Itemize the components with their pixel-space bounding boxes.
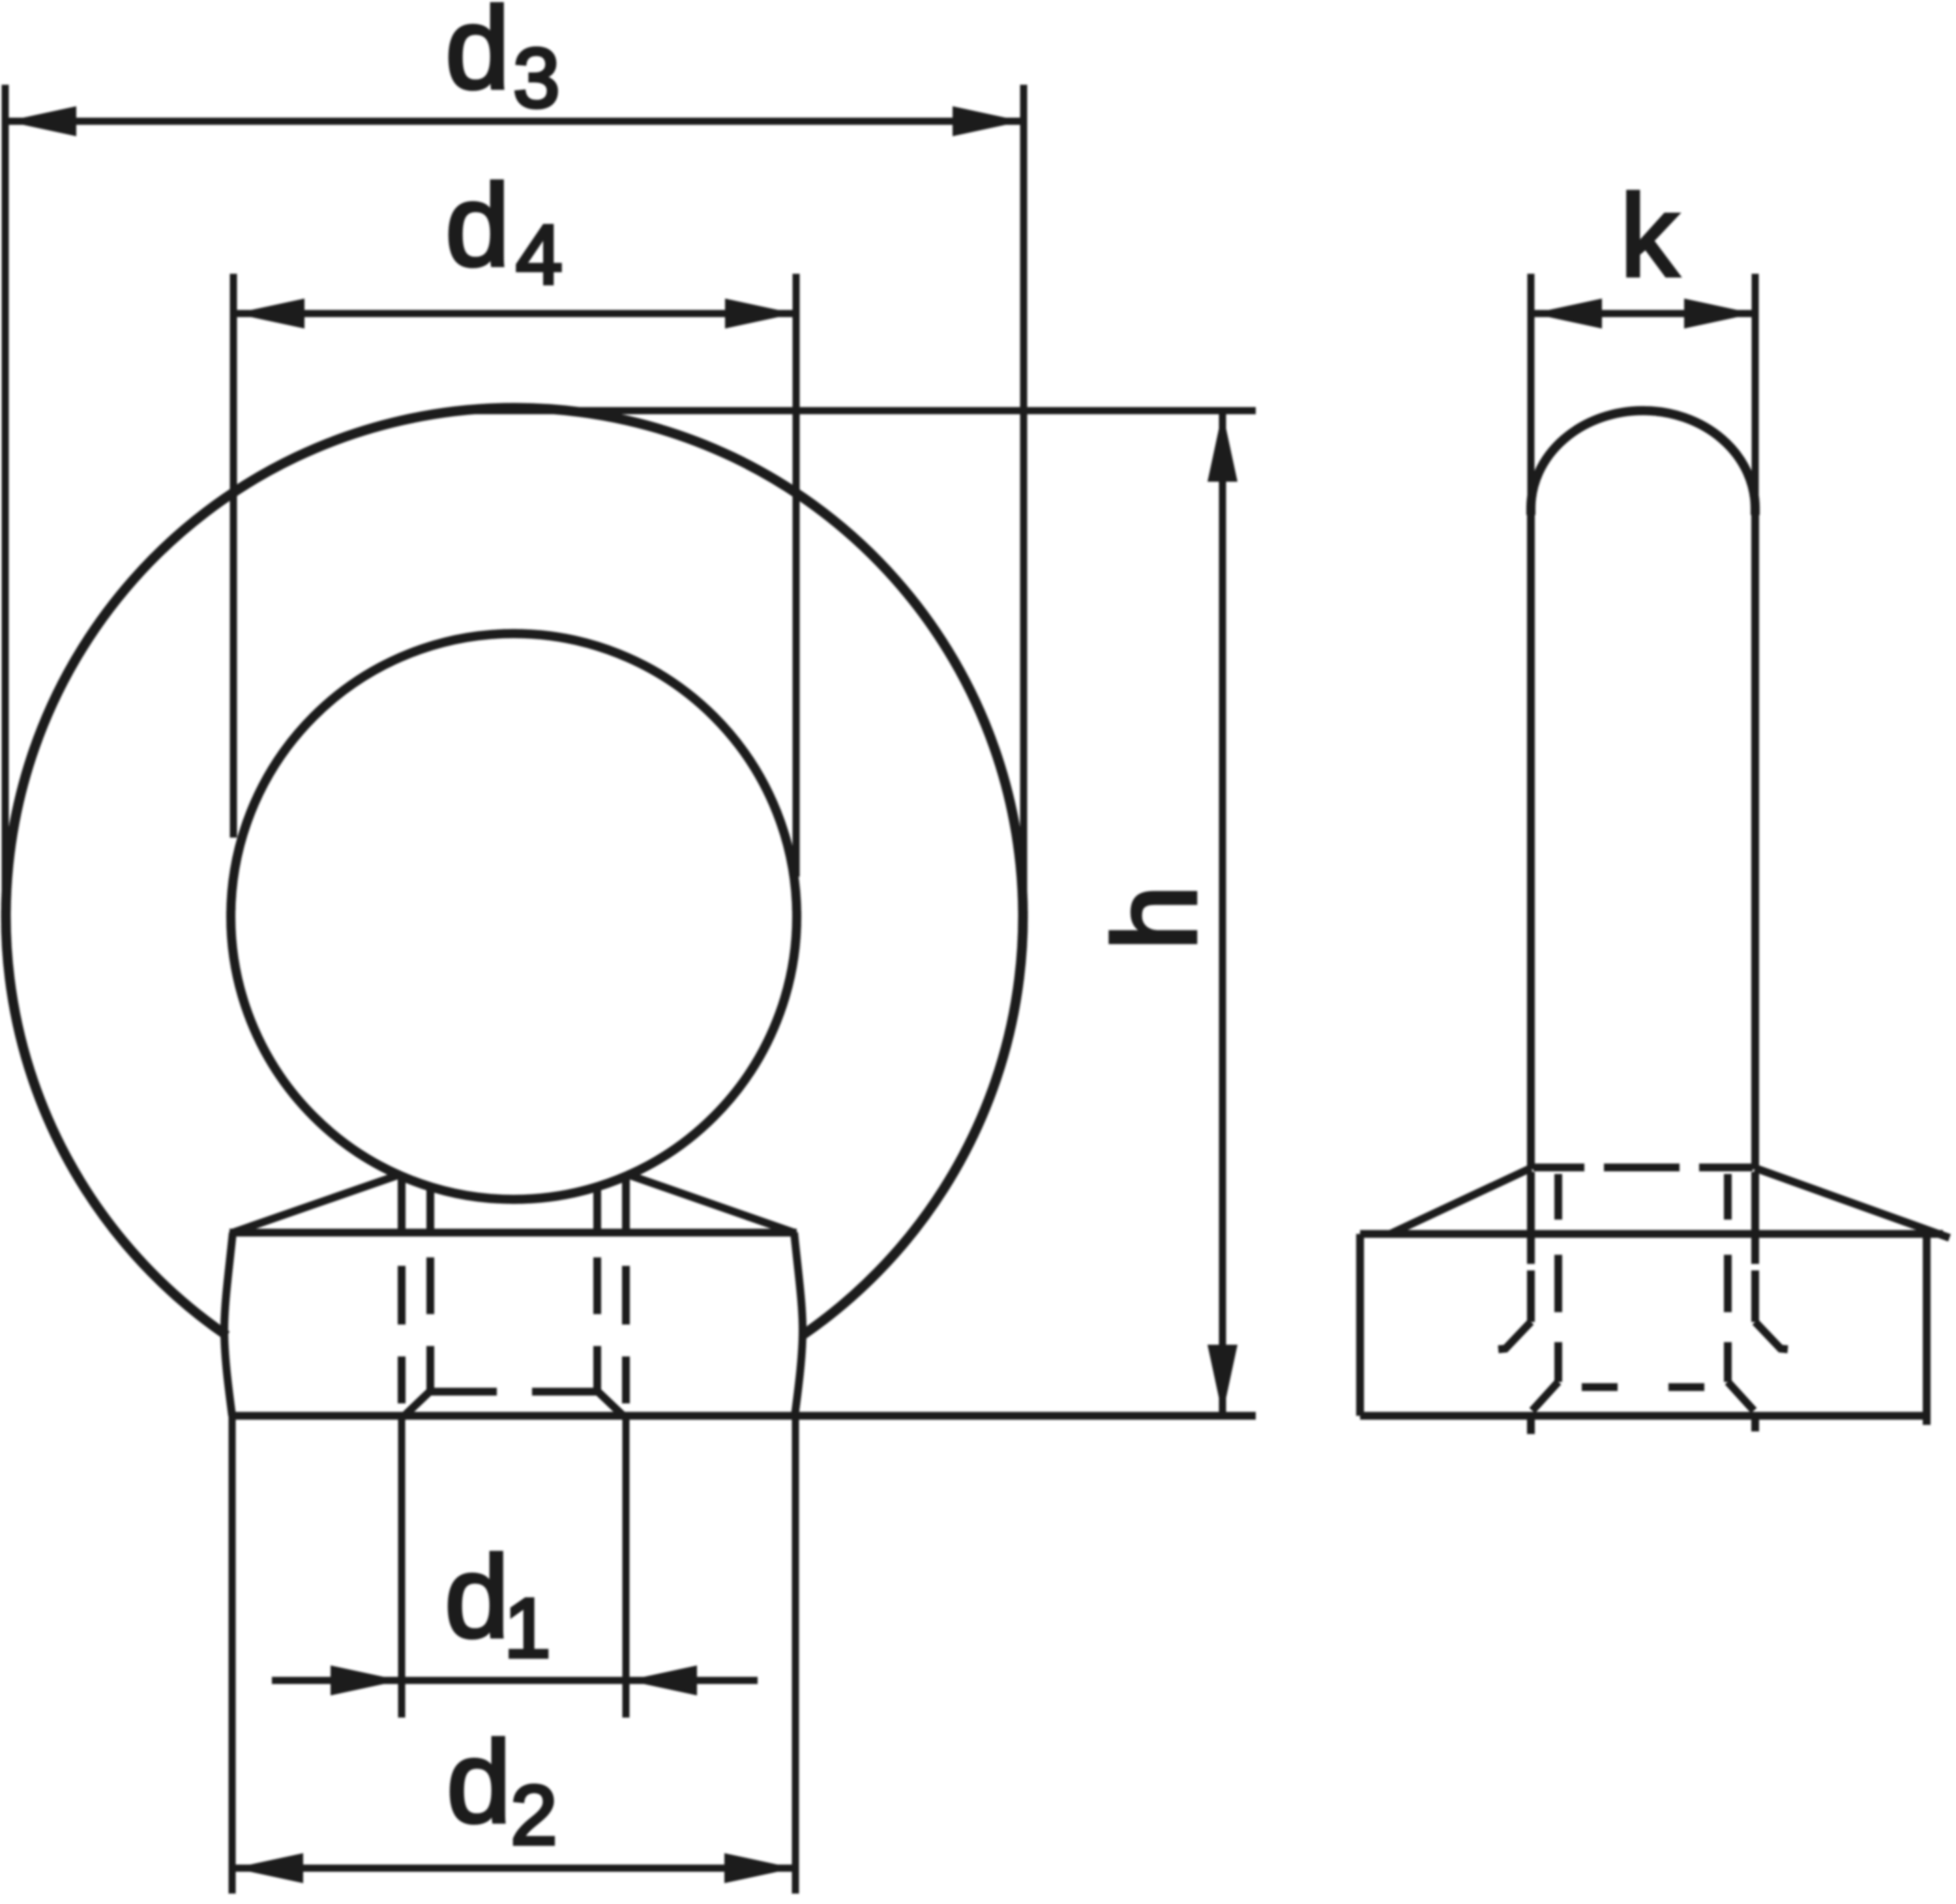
arrowhead d3 right (953, 106, 1022, 136)
arrowhead d2 left (233, 1853, 303, 1883)
neck line right outer (622, 1175, 630, 1234)
base right edge (front view) (794, 1233, 803, 1416)
base bottom edge (side view) (1360, 1412, 1930, 1420)
arrowhead k right (inside pointing right) (1684, 299, 1754, 329)
extension line d2 right (below base) (792, 1416, 799, 1894)
thread chamfer hidden horizontal left (front view) (430, 1388, 497, 1396)
svg-text:d: d (447, 1717, 511, 1847)
extension line d3 left (2, 85, 9, 932)
inner ring circle (front view hole) (231, 634, 797, 1199)
side view ring left edge (1527, 507, 1535, 1169)
outer ring circle (front view torus outer silhouette) (6, 408, 1023, 1336)
svg-text:d: d (445, 1532, 509, 1662)
dimension line h (1219, 412, 1226, 1414)
arrowhead d4 right (725, 299, 795, 329)
hidden thread outer line right (dashed, side view) (1751, 1172, 1759, 1322)
base left edge (front view) (224, 1233, 233, 1416)
arrowhead d2 right (724, 1853, 794, 1883)
hidden thread line left inner (dashed, front view) (426, 1257, 434, 1391)
extension line d1 right (below base) (623, 1416, 630, 1718)
hidden silhouette diagonal right with hook (side view) (1755, 1322, 1788, 1349)
thread chamfer hidden horizontal right (side view) (1668, 1383, 1704, 1391)
arrowhead h bottom (1208, 1345, 1237, 1414)
thread chamfer diagonal right (front view) (597, 1391, 625, 1417)
thread chamfer diagonal left (side view) (1532, 1382, 1558, 1411)
hidden thread inner line right (dashed, side view) (1724, 1174, 1732, 1382)
thread chamfer diagonal left (front view) (403, 1391, 430, 1417)
neck line left outer (398, 1175, 406, 1234)
extension line d2 left (below base) (229, 1416, 236, 1894)
hidden thread inner line left (dashed, side view) (1554, 1174, 1562, 1382)
cone slant line left (front view) (233, 1174, 402, 1233)
cone slant line right (side view, overshooting) (1755, 1168, 1949, 1238)
base bottom right stub (side view) (1923, 1416, 1931, 1425)
arrowhead d3 left (7, 106, 76, 136)
svg-text:4: 4 (516, 208, 563, 302)
svg-text:k: k (1620, 171, 1679, 300)
extension line d3 right (1020, 85, 1028, 932)
thread chamfer diagonal right (side view) (1728, 1382, 1754, 1411)
side view ring dome arc (1531, 411, 1755, 515)
base top edge (front view) (230, 1229, 797, 1237)
cone slant line left (side view) (1390, 1168, 1531, 1234)
dimension line d4 (233, 310, 796, 317)
arrowhead d1 right (outside pointing left) (627, 1665, 697, 1695)
thread chamfer hidden horizontal left (side view) (1582, 1383, 1618, 1391)
hidden silhouette diagonal left with hook (side view) (1498, 1322, 1531, 1349)
base bottom right stub at thread (side view) (1751, 1416, 1759, 1431)
extension line k left (1528, 274, 1535, 515)
svg-text:2: 2 (511, 1768, 557, 1862)
hidden thread outer line left (dashed, side view) (1527, 1172, 1535, 1322)
hidden thread line right outer (dashed, front view) (622, 1266, 630, 1403)
base top edge (side view) (1360, 1230, 1943, 1238)
thread chamfer hidden horizontal right (front view) (532, 1388, 597, 1396)
arrowhead k left (inside pointing left) (1532, 299, 1602, 329)
hidden thread line left outer (dashed, front view) (398, 1266, 406, 1403)
base right edge (side view) (1923, 1238, 1931, 1416)
extension line d4 left (230, 274, 237, 838)
hidden hole top line (dashed, side view) (1534, 1164, 1753, 1171)
base left edge (side view) (1356, 1234, 1364, 1416)
extension line d1 left (below base) (398, 1416, 406, 1718)
extension line k right (1752, 274, 1759, 515)
dimension line d1 (272, 1677, 758, 1684)
cone slant line right (front view) (626, 1174, 794, 1233)
neck line right inner (593, 1185, 601, 1234)
dimension line d3 (5, 118, 1024, 125)
base bottom edge and h extension line (front view) (229, 1412, 1256, 1420)
extension line d4 right (793, 274, 800, 877)
svg-text:3: 3 (513, 31, 560, 125)
side view ring right edge (1751, 507, 1759, 1169)
arrowhead d4 left (235, 299, 304, 329)
svg-text:1: 1 (504, 1581, 551, 1675)
arrowhead h top (1208, 412, 1237, 482)
dimension line k (1531, 310, 1755, 317)
neck line left inner (426, 1185, 434, 1234)
svg-text:d: d (445, 0, 510, 113)
arrowhead d1 left (outside pointing right) (331, 1665, 400, 1695)
svg-text:d: d (445, 160, 510, 290)
hidden thread line right inner (dashed, front view) (593, 1257, 601, 1391)
svg-text:h: h (1090, 885, 1221, 950)
extension line h top (tangent to ring top) (456, 407, 1256, 415)
dimension line d2 (232, 1865, 795, 1872)
base bottom left stub at thread (side view) (1527, 1416, 1535, 1434)
